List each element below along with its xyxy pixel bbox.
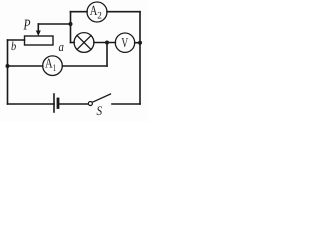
wire bottom to battery xyxy=(8,103,55,105)
node J2 dot xyxy=(69,22,73,26)
node right dot xyxy=(138,41,142,45)
wire lamp to node D1 to V xyxy=(94,42,116,44)
wire A2 to top right corner xyxy=(107,11,140,13)
node left dot xyxy=(6,64,10,68)
wire V to right wire xyxy=(135,42,140,44)
battery short plate xyxy=(57,99,60,108)
switch pivot circle xyxy=(88,102,92,106)
battery long plate xyxy=(53,94,55,112)
wire down-branch to A1 xyxy=(62,65,107,67)
node D1 dot xyxy=(105,41,109,45)
wire top left to A2 xyxy=(71,11,88,13)
svg-text:A: A xyxy=(45,55,53,70)
wire to lamp xyxy=(71,42,75,44)
lamp X diagonal 2 xyxy=(77,36,91,50)
lamp X diagonal 1 xyxy=(77,36,91,50)
resistor rheostat R (box) xyxy=(25,36,54,45)
wire b to rheostat xyxy=(8,39,25,41)
svg-text:b: b xyxy=(11,39,16,53)
lamp L circle xyxy=(74,33,94,53)
voltmeter V circle xyxy=(115,33,134,52)
svg-text:S: S xyxy=(97,103,103,118)
wire left vertical xyxy=(7,40,9,104)
wire switch to right corner xyxy=(112,103,140,105)
wire node J2 up xyxy=(70,12,72,24)
svg-text:2: 2 xyxy=(97,11,102,22)
svg-text:1: 1 xyxy=(53,63,56,74)
svg-text:V: V xyxy=(121,35,128,50)
switch lever xyxy=(92,94,110,102)
wire A1 to left wire xyxy=(8,65,43,67)
wire node D1 down xyxy=(106,43,108,67)
wire right vertical xyxy=(139,12,141,104)
wire node J2 down to lamp row xyxy=(70,24,72,43)
slider arrowhead xyxy=(36,31,41,37)
wire slider stem P xyxy=(37,24,39,32)
svg-text:P: P xyxy=(23,18,31,34)
ammeter A1 circle xyxy=(43,56,63,76)
wire slider to node J2 xyxy=(38,23,70,25)
ammeter A2 circle xyxy=(87,2,107,22)
wire battery to switch xyxy=(60,103,88,105)
svg-text:a: a xyxy=(59,39,65,54)
